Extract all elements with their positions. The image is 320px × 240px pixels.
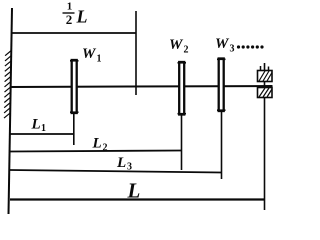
svg-text:L: L <box>127 179 141 203</box>
label W2 <box>169 37 189 56</box>
svg-text:L: L <box>116 155 126 171</box>
wall hatching <box>4 51 11 119</box>
label W1 <box>82 46 102 65</box>
dimension line L1 <box>10 133 74 135</box>
svg-text:L: L <box>76 7 88 27</box>
W2 extension line <box>181 115 183 171</box>
svg-text:3: 3 <box>230 44 235 55</box>
bearing centerline / L extension line <box>264 63 266 210</box>
wall support vertical line <box>9 8 13 214</box>
bearing upper block <box>258 66 273 82</box>
svg-text:1: 1 <box>67 1 73 13</box>
shaft <box>10 86 273 87</box>
disc W1 <box>70 60 79 113</box>
disc W3 <box>217 59 226 112</box>
half-L extension line <box>135 11 137 95</box>
svg-text:L: L <box>31 117 41 133</box>
svg-text:2: 2 <box>66 12 73 27</box>
dimension line L3 <box>10 170 222 173</box>
disc W2 <box>178 62 187 115</box>
svg-text:1: 1 <box>41 123 46 134</box>
svg-text:2: 2 <box>103 143 108 154</box>
label L1 <box>31 117 47 135</box>
svg-text:W: W <box>215 36 230 52</box>
svg-text:3: 3 <box>127 162 132 173</box>
dimension line half L <box>11 32 136 34</box>
bearing lower block <box>258 88 273 98</box>
label 1/2 L <box>63 1 88 27</box>
label W3 <box>215 36 235 55</box>
label L3 <box>116 155 132 173</box>
svg-text:W: W <box>169 37 184 53</box>
svg-text:W: W <box>82 46 97 62</box>
W3 extension line <box>221 111 223 179</box>
label L2 <box>92 136 108 154</box>
svg-text:2: 2 <box>184 45 189 56</box>
dimension line L <box>10 198 265 200</box>
W1 extension line <box>73 113 75 145</box>
svg-text:1: 1 <box>97 54 102 65</box>
ellipsis dots after W3 <box>237 45 264 48</box>
dimension line L2 <box>10 151 182 152</box>
svg-text:L: L <box>92 136 102 152</box>
